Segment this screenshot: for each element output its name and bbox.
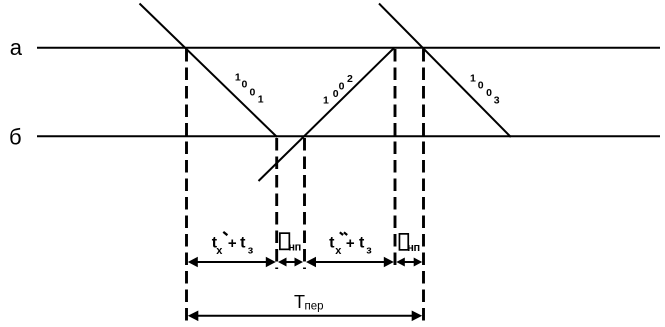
svg-text:х: х [216, 245, 223, 257]
train path 1002 [259, 48, 395, 181]
svg-text:0: 0 [486, 87, 492, 99]
svg-text:з: з [366, 244, 372, 256]
svg-text:0: 0 [339, 80, 345, 92]
label t_x''+t_з [329, 235, 372, 257]
svg-text:Т: Т [294, 292, 305, 312]
svg-text:3: 3 [494, 95, 500, 107]
dashed time line 3 (departure 1002 from б) [303, 138, 306, 269]
interval arrow t_x'+t_з [188, 257, 276, 267]
double prime mark of t_x'' [340, 232, 347, 235]
svg-text:нп: нп [407, 242, 420, 254]
period arrow Т_пер [188, 311, 422, 322]
svg-text:0: 0 [242, 79, 248, 91]
svg-text:t: t [240, 235, 246, 252]
interval symbol box2 (tau glyph box) [399, 234, 408, 250]
svg-text:1: 1 [258, 94, 264, 106]
dashed time line 2 (arrival 1001 at б) [275, 138, 278, 269]
svg-text:х: х [335, 245, 342, 257]
svg-text:пер: пер [305, 301, 324, 313]
svg-text:+: + [346, 235, 355, 252]
svg-text:б: б [9, 124, 22, 149]
dashed time line 4 (arrival 1002 at а) [394, 49, 397, 269]
svg-text:0: 0 [478, 79, 484, 91]
svg-text:t: t [359, 235, 365, 252]
train path 1003 [379, 4, 511, 138]
svg-text:+: + [228, 235, 237, 252]
train path 1001 [140, 4, 278, 138]
train number 1003 [470, 73, 500, 107]
svg-text:1: 1 [235, 72, 241, 84]
svg-text:з: з [248, 244, 254, 256]
svg-text:1: 1 [323, 95, 329, 107]
train number 1001 [235, 72, 264, 106]
svg-text:t: t [329, 235, 335, 252]
train number 1002 [323, 73, 353, 107]
dashed time line 1 (departure 1001 from а) [185, 49, 188, 322]
svg-text:0: 0 [250, 87, 256, 99]
station line б [37, 135, 660, 137]
label t_x'+t_з [212, 235, 254, 257]
interval arrow t_x''+t_з [306, 257, 394, 267]
interval arrow tau_нп 1 [278, 258, 303, 267]
svg-text:1: 1 [470, 73, 476, 85]
svg-text:нп: нп [288, 242, 301, 254]
svg-text:2: 2 [347, 73, 353, 85]
svg-text:а: а [10, 35, 23, 60]
dashed time line 5 (departure 1003 from а) [422, 49, 425, 322]
prime mark of t_x' [223, 232, 227, 235]
interval arrow tau_нп 2 [396, 258, 422, 267]
station line а [37, 47, 660, 49]
interval symbol box1 (tau glyph box) [280, 233, 290, 249]
